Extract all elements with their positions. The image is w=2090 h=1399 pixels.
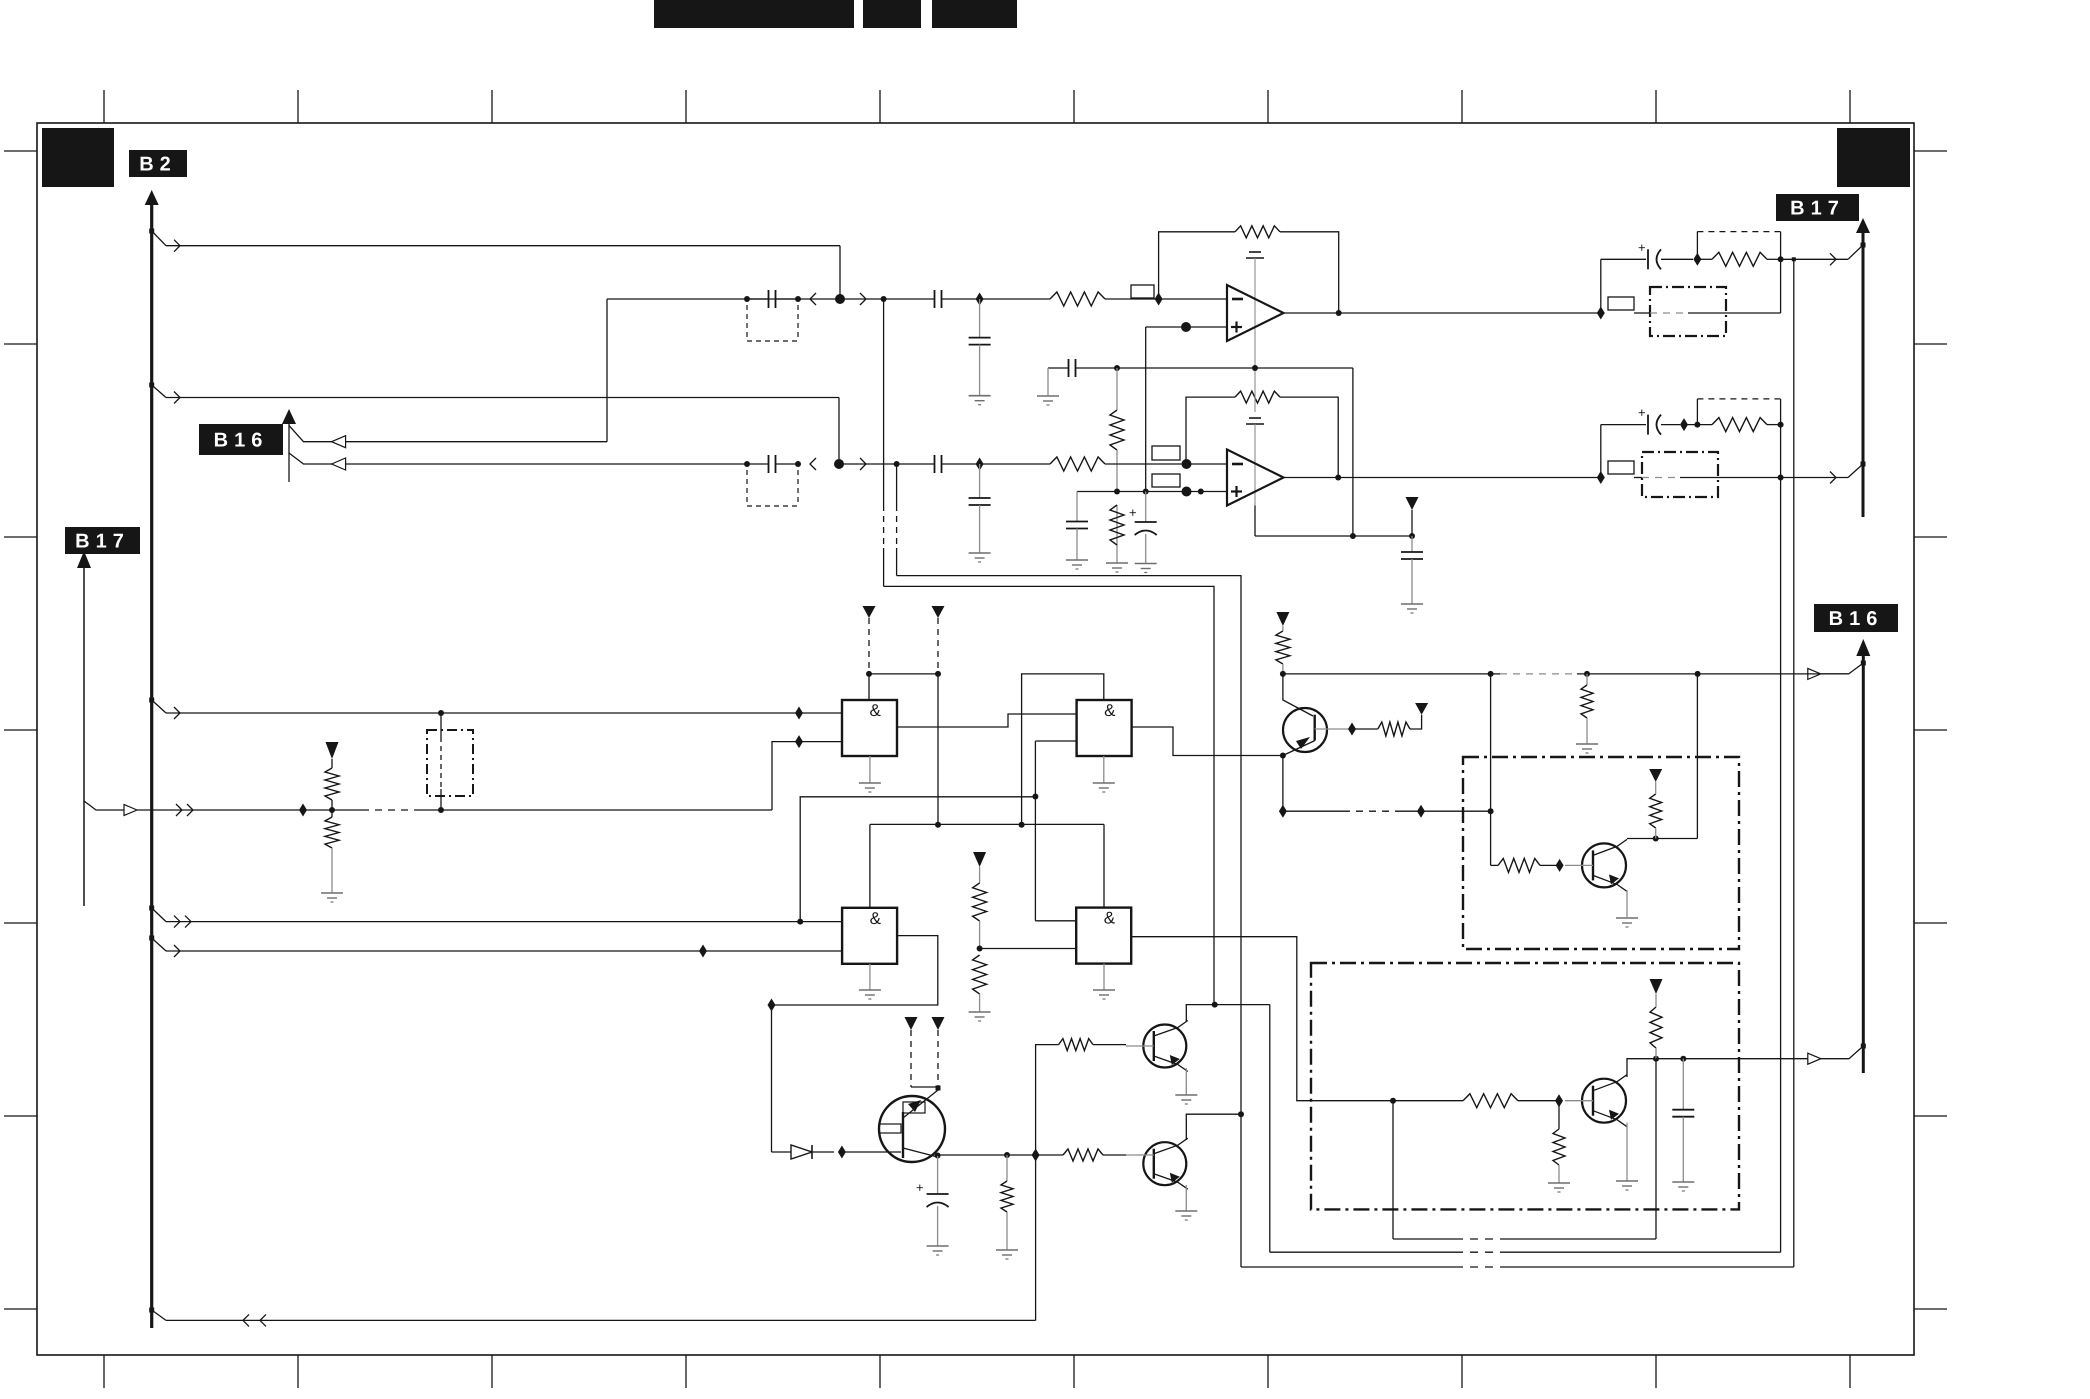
bus B17-right tap ch1 [1848,243,1866,260]
label box ch1 [1608,297,1634,310]
B17-left vertical wire [83,568,85,906]
node Q3 base rail [1280,671,1286,677]
node op2 plus input [1182,487,1204,497]
AND gate G1 [842,700,897,756]
wire w2 dashed segment [332,809,772,811]
B17-left branch diagonal [84,801,124,810]
node rail riser [1350,533,1356,539]
dashed supply wire G2chain [935,618,941,825]
node chain top [1114,365,1120,371]
G2 ground [1093,756,1115,792]
diode D1 [772,1145,835,1159]
border frame [37,123,1914,1355]
node on line-d [744,461,750,467]
chevron right line-b [860,293,866,305]
op-amp U2 plus sign [1231,486,1242,497]
wire branch w1 [166,707,842,719]
op-amp U1 power symbol [1246,252,1264,368]
op-amp U1 plus sign [1231,322,1242,333]
diamond gate1 input2 [795,735,842,748]
node ch1 R end [1778,256,1784,262]
bottom return wire [166,1314,1036,1326]
svg-text:B2: B2 [139,154,177,176]
module link wire to V3 [1421,810,1491,812]
diamond on w5 [699,945,707,958]
wire G1 out to G2 in1 [897,714,1077,727]
label box ch2 [1608,461,1634,474]
feedback loop L2 [1270,1005,1781,1253]
title redaction bar 3 [932,0,1017,28]
diamond Q5Q6 base node [1032,1149,1040,1162]
bus tap node A [149,229,166,246]
mid filter cap ground leg [1047,368,1049,396]
pull-down resistor rail [1581,674,1593,744]
op-amp U1 feedback resistor [1235,226,1280,238]
diamond module link left [1279,805,1287,818]
shunt capacitor on line-b [969,299,991,396]
svg-text:+: + [916,1180,924,1195]
dashed base rail segment [1491,673,1849,675]
corner block top-left [42,128,114,187]
node ch1 crosslink [1792,257,1796,261]
wire G4 out [1132,937,1393,1101]
op-amp U2 feedback resistor [1235,391,1280,403]
node op1 output feedback [1336,310,1342,316]
node op2 minus input [1182,459,1192,469]
ground rail resistor [1576,744,1598,753]
Q4 emitter cap [927,1156,949,1246]
diamond ch2 cap node [1680,418,1688,431]
wire C down to node [838,398,840,465]
wire branch C [166,392,839,404]
wire op1 output [1284,312,1601,314]
ground shunt cap plus line [1066,560,1088,569]
G4 top pin wire [1103,824,1105,907]
riser line-b junction [883,299,885,586]
crosslink wire w4 to gates [800,797,1035,922]
riser Q7 collector [1696,674,1698,839]
node rail Q7 tap [1695,671,1701,677]
op-amp U2 minus sign [1232,463,1243,466]
op-amp U1 plus input wire [1146,326,1227,328]
power rail wire [1255,535,1412,537]
wire base rail right [1283,673,1491,675]
Q7 emitter wire [1626,890,1628,918]
Q8 pull-up resistor [1650,994,1662,1059]
diamond on w2 [299,804,307,817]
Q5 collector route [1186,1005,1270,1022]
Q5 base wire [1036,1039,1126,1155]
diamond feedback node op1 [1155,293,1163,306]
node V3 link [1488,808,1494,814]
Q7 base wire [1491,858,1560,872]
bus tap node bottom [149,1308,166,1321]
vertical link G2in2-G4in1 [1034,741,1036,921]
bus B16-right tap lower [1821,1044,1866,1059]
Q8 output cap [1672,1059,1694,1182]
node right of C-d1 [795,461,801,467]
svg-text:&: & [1104,909,1116,928]
dashed alt box under C-d1 [747,470,798,506]
node mid divider [977,946,983,952]
node on line-b [744,296,750,302]
wire G4 in1 [1035,920,1076,922]
ground mid divider [969,1012,991,1021]
ground bias chain [1106,563,1128,572]
bus B17-right tap ch2 [1848,462,1866,478]
Q4 load resistor [1001,1155,1013,1250]
svg-text:&: & [870,701,882,720]
mid filter cap wire [1048,367,1353,369]
Q3 emitter [1283,737,1315,756]
junction node line-d [834,459,844,469]
Q4 base bar [902,1112,904,1158]
diamond Q3 base [1348,723,1356,736]
dashed alt box ch2 [1697,399,1780,425]
Q7 emitter ground [1616,918,1638,927]
Q4 collector [903,1148,938,1157]
op-amp U1 triangle [1227,285,1284,341]
node ch2 on output wire [1778,475,1784,481]
dashed alt box under C-b1 [747,305,798,341]
label B16 left [199,424,283,455]
bottom return riser [1035,1155,1037,1320]
module link wire dashed [1283,810,1421,812]
bus tap node w4 [149,906,166,922]
wire ch2 through module [1634,477,1848,479]
electrolytic cap ch1 [1601,249,1693,269]
module box ch2 dash-dot [1642,452,1718,497]
Q7 collector wire [1627,839,1697,858]
node chain mid [1114,489,1120,495]
wire line-d to diamond [942,463,1051,465]
AND gate G2 [1077,700,1132,756]
wire Q8 collector to bus [1656,1058,1808,1060]
rail decoupling cap [1401,536,1423,604]
mid divider resistor upper [973,867,987,949]
mid filter cap [1069,359,1076,377]
riser line-d junction [896,464,898,576]
wire ch1 riser to cap row [1600,259,1602,313]
supply arrow G1 [863,606,876,618]
arrow into B16 branch 2 [332,458,346,470]
op-amp U2 triangle [1227,450,1284,506]
node ch2 R end [1778,422,1784,428]
capacitor C-b2 [935,290,942,308]
riser mid cap to rail [1352,368,1354,536]
plus sign ch2 cap [1638,405,1646,420]
dashed supply wire G1 [866,618,872,700]
feedback loop L3 [1241,1114,1794,1267]
resistor ch1 [1712,252,1767,266]
supply link wire G1-G2chain [869,673,938,675]
node riser on plus line [1143,489,1149,495]
node Q6 collector [1238,1111,1244,1117]
node right of C-b1 [795,296,801,302]
node gate rail b [1019,822,1025,828]
node Q8 collector [1653,1056,1659,1062]
supply arrow Q4 a [905,1017,918,1087]
dashed alt box ch1 [1697,232,1780,260]
svg-text:B17: B17 [1790,198,1845,220]
diamond ch1 cap node [1693,253,1701,266]
feedback loop L1 [1393,1059,1656,1239]
op-amp U2 power down wire [1254,506,1256,537]
bus B2 vertical wire [150,205,153,1328]
supply arrow mid divider [973,852,986,867]
shunt capacitor on line-d [969,464,991,553]
label B2 [129,150,187,177]
wire branch w4 [166,916,842,928]
Q7 collector node wire [1626,839,1628,862]
plus sign ch1 cap [1638,240,1646,255]
connector box w1-w2 dash-dot [427,730,473,796]
supply arrow Q4 b [932,1017,945,1087]
vertical ch1 node to output wire [1780,259,1782,313]
riser between plus inputs [1145,327,1147,492]
ground Q4 load resistor [996,1250,1018,1259]
route line-d to Q6 [897,576,1241,1115]
node Q8 base [1390,1098,1396,1104]
Q4 base stub [842,1151,901,1153]
B16-left stub wire [288,424,290,482]
route line-b to Q5 [884,586,1214,1004]
Q4 emitter supply link [911,1086,941,1091]
ground Q4 cap [927,1246,949,1255]
wire R-d to opamp2 [1105,463,1227,465]
svg-text:+: + [1129,505,1137,520]
chevron right line-d [860,458,866,470]
resistor ch2 [1712,418,1767,432]
chevron left line-b [810,293,816,305]
gate rail to G2 loop [1022,674,1104,825]
ground rail cap [1401,604,1423,613]
Q7 pull-up resistor [1650,782,1662,839]
node Q3 emitter [1280,753,1286,759]
ground Q8 output cap [1672,1182,1694,1191]
Q3 collector resistor [1276,626,1290,674]
bus tap node w5 [149,936,166,952]
wire branch w2 [137,804,303,816]
G3 top pin wire [869,824,871,907]
diamond module link right [1417,805,1425,818]
resistor R-d [1050,457,1105,471]
label B16 right [1814,604,1898,632]
label B17 right [1776,194,1859,221]
capacitor C-b1 [769,290,776,308]
svg-text:&: & [870,909,882,928]
node line-d at riser [894,461,900,467]
ground mid filter [1037,396,1059,405]
Q8 base resistor [1393,1094,1559,1108]
label box on line-b [1131,285,1154,298]
svg-text:B16: B16 [214,430,269,452]
title redaction bar 1 [654,0,854,28]
shield box2 dash-dot [1311,963,1739,1209]
wire Q3 emitter down [1282,756,1284,812]
wire line-b [607,298,840,300]
supply arrow left divider [326,742,339,759]
wire w2 jog up to gate1 [772,742,799,810]
capacitor C-d1 [769,455,776,473]
B16-left arrow [282,409,296,424]
wire ch1 to bus [1781,253,1848,265]
wire branch w5 [166,945,842,957]
diamond G3 output node [768,999,776,1012]
svg-text:+: + [1638,405,1646,420]
bus tap node w1 [149,698,166,714]
arrow on B17-left branch [124,805,137,816]
corner block top-right [1837,128,1910,187]
transistor Q5 [1126,1021,1188,1072]
capacitor C-d2 [935,455,942,473]
node ch2 box corner [1694,422,1700,428]
node w1 at link [438,710,444,716]
Q8 base pulldown resistor [1553,1101,1565,1183]
supply arrow Q8 [1650,979,1663,994]
label B17 left [65,527,140,554]
node base rail V3 [1488,671,1494,677]
node Q4 resistor tap [1004,1152,1010,1158]
supply arrow Q3 [1276,612,1289,626]
B17-left arrow [77,551,91,568]
arrow into B16 branch 1 [332,436,346,448]
wire line-d mid [839,463,935,465]
wire Q4 collector right [938,1154,1036,1156]
node Q8 cap tap [1680,1056,1686,1062]
Q4 label box lower [879,1124,901,1133]
ground elec cap [1135,564,1157,573]
AND gate G4 [1076,908,1131,964]
Q4 emitter [903,1090,938,1118]
Q6 base wire [1036,1149,1126,1161]
transistor Q3 body [1283,708,1327,752]
shield box1 dash-dot [1463,757,1739,949]
node op2 output feedback [1335,475,1341,481]
B16-left branch wire 1 [289,426,607,442]
node rail supply [1409,533,1415,539]
transistor Q6 [1126,1138,1188,1189]
module box ch1 dash-dot [1650,287,1726,336]
wire Q3 node down [1283,674,1313,716]
svg-text:B16: B16 [1829,608,1884,630]
node op1 plus input [1181,322,1191,332]
wire G2 out [1132,727,1283,756]
Q4 label box upper [903,1102,925,1113]
diamond gate1 input1 [795,707,803,720]
bus B17-right arrow [1856,218,1870,233]
wire ch2 riser to cap row [1600,425,1602,478]
Q5 emitter ground [1175,1054,1197,1104]
plus-input line op2 [1077,491,1227,493]
wire gap cap C-b1 [747,298,798,300]
wire ch1 R ends [1697,258,1780,260]
wire ch2 R ends [1684,424,1781,426]
node Q7 collector [1653,836,1659,842]
wire line-b vertical from B16 branch [606,299,608,442]
node crosslink [1032,794,1038,800]
wire line-b to diamond [942,298,1051,300]
bias chain wire [1116,368,1118,563]
junction node line-b [835,294,845,304]
left divider resistor upper [325,759,339,810]
diamond Q4 base [838,1146,846,1159]
ground below line-d cap [969,553,991,562]
wire ch1 through module [1634,312,1781,314]
Q6 collector route [1186,1114,1241,1140]
wire G3 out [772,936,938,1005]
transistor Q8 [1565,1075,1627,1127]
diamond Q8 base [1555,1094,1563,1107]
Q8 emitter ground wire [1616,1123,1638,1190]
supply arrow G2chain [932,606,945,618]
chevron left line-d [810,458,816,470]
svg-text:&: & [1104,701,1116,720]
label box on line-d lower [1152,474,1180,487]
B16-left branch wire 2 [289,453,747,464]
vertical run V1 ch2 [1780,399,1782,1252]
bus B16-right vertical wire [1862,656,1865,1073]
supply arrow Q7 [1649,769,1662,782]
wire op2 output [1284,477,1601,479]
bus B17-right vertical wire [1862,233,1865,517]
transistor Q4 body [879,1096,945,1162]
electrolytic cap plus line [1135,492,1157,564]
node rail resistor tap [1584,671,1590,677]
wire op1 power to op2 symbol [1252,365,1258,412]
wire G3out down [771,1005,773,1152]
Q3 base bar [1313,715,1315,741]
node gate rail a [935,822,941,828]
arrow on B16 lower tap [1808,1053,1821,1064]
bus B16-right tap upper [1821,661,1866,674]
gate rail wire [870,823,1104,825]
Q3 base stub [1315,728,1352,730]
ground below line-b cap [969,396,991,405]
G1 ground [859,756,881,792]
node Q5 collector [1212,1002,1218,1008]
supply arrow rail [1406,497,1419,536]
AND gate G3 [842,908,897,964]
label box on line-d upper [1152,446,1180,460]
bus B2 arrow [145,190,159,205]
plus sign elec cap [1129,505,1137,520]
diamond node line-b [976,293,984,306]
mid divider resistor lower [973,955,987,1012]
node w2 at link [438,807,444,813]
supply arrow Q3 base [1415,703,1428,715]
wire divider to G4 in2 [980,948,1077,950]
plus sign Q4 cap [916,1180,924,1195]
shunt cap plus line [1066,492,1088,561]
wire R-b to opamp [1105,298,1227,300]
node Q4 collector [935,1153,941,1159]
svg-text:B17: B17 [75,531,130,553]
diamond Q7 base [1556,859,1564,872]
left divider resistor lower [325,810,339,893]
op-amp U2 power symbol [1246,418,1264,506]
electrolytic cap ch2 [1601,415,1680,435]
op-amp U1 minus sign [1232,298,1243,301]
op-amp U1 feedback wire [1159,232,1339,313]
wire gap C-d1 [747,463,798,465]
vertical V3 [1490,674,1492,866]
svg-text:+: + [1638,240,1646,255]
diamond node ch1 output [1597,307,1605,320]
link wire w1-w2 [440,713,442,810]
transistor Q7 [1565,839,1627,891]
node w2 divider [303,807,335,813]
